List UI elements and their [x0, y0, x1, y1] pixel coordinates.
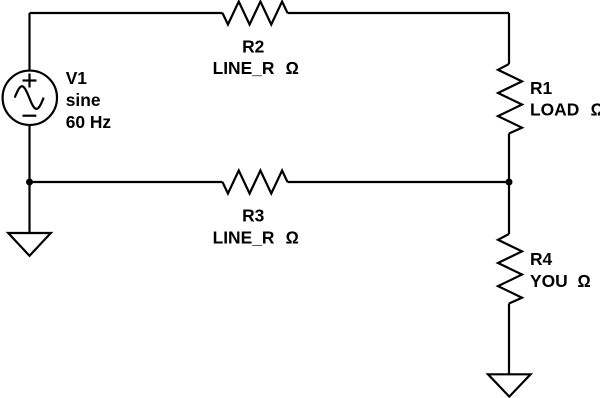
- svg-text:R4: R4: [530, 249, 553, 269]
- ground left: [8, 233, 51, 256]
- svg-text:sine: sine: [66, 90, 101, 110]
- wire middle rail right segment: [288, 181, 510, 183]
- V1 sine symbol: [15, 86, 44, 109]
- svg-text:YOU Ω: YOU Ω: [530, 271, 591, 291]
- svg-text:R1: R1: [530, 78, 553, 98]
- wire R1 to node B: [508, 134, 510, 183]
- resistor R4: [498, 234, 522, 304]
- wire top-left vertical (source top to top rail): [28, 13, 30, 71]
- svg-text:LINE_R Ω: LINE_R Ω: [213, 58, 299, 78]
- wire top rail right segment: [288, 12, 510, 14]
- svg-text:V1: V1: [66, 68, 88, 88]
- svg-text:R3: R3: [242, 205, 265, 225]
- svg-text:60 Hz: 60 Hz: [66, 112, 112, 132]
- wire node B to R4: [508, 182, 510, 234]
- resistor R3: [223, 171, 288, 194]
- resistor R1: [498, 64, 522, 134]
- wire right vertical top (to R1): [508, 13, 510, 64]
- V1 plus sign: [23, 79, 37, 81]
- wire R4 to right ground: [508, 304, 510, 375]
- svg-text:LINE_R Ω: LINE_R Ω: [213, 228, 299, 248]
- node A dot: [26, 179, 33, 186]
- voltage source V1 circle: [3, 71, 57, 125]
- wire node A to left ground: [28, 182, 30, 233]
- svg-text:LOAD Ω: LOAD Ω: [530, 100, 600, 120]
- svg-text:R2: R2: [242, 37, 264, 57]
- wire source bottom to node A: [28, 125, 30, 182]
- node B dot: [506, 179, 513, 186]
- resistor R2: [223, 2, 288, 25]
- V1 minus sign: [23, 115, 37, 117]
- wire middle rail left segment: [30, 181, 223, 183]
- wire top rail left segment: [30, 12, 223, 14]
- ground right: [488, 374, 531, 396]
